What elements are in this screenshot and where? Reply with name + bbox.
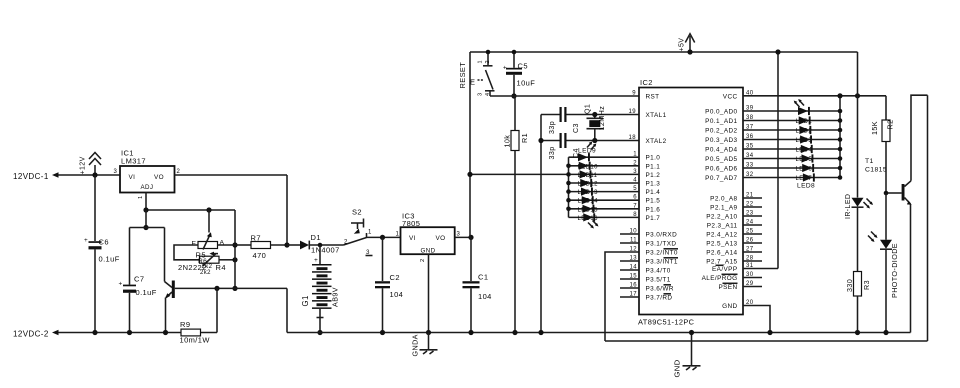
svg-text:+5V: +5V <box>679 38 686 52</box>
svg-text:18: 18 <box>629 135 637 141</box>
LED P0.0 <box>798 107 810 115</box>
svg-text:330: 330 <box>845 279 854 292</box>
crystal Q1 12MHz <box>584 104 607 143</box>
svg-text:RESET: RESET <box>458 62 467 89</box>
svg-text:P1.3: P1.3 <box>646 181 661 188</box>
LED LED10 <box>579 162 591 170</box>
wire base line <box>175 287 287 289</box>
junction emitter rail <box>163 330 168 335</box>
junction split <box>143 225 148 230</box>
wire P1.5 row <box>569 199 640 201</box>
svg-text:VO: VO <box>436 235 446 242</box>
svg-text:P1.0: P1.0 <box>646 155 661 162</box>
junction bus rows <box>566 164 571 212</box>
LED P0.2 <box>799 126 811 134</box>
wire P1.3 row <box>569 182 640 184</box>
svg-text:P1.6: P1.6 <box>646 206 661 213</box>
LED LED16 <box>583 213 595 221</box>
wire S2 to IC3 <box>367 236 401 238</box>
junction R7 D1 VO <box>284 242 289 247</box>
svg-text:R7: R7 <box>251 234 261 243</box>
potentiometer R5 <box>192 232 225 249</box>
junction G1 rail <box>317 330 322 335</box>
junction C6 rail <box>92 330 97 335</box>
svg-text:VCC: VCC <box>723 93 738 100</box>
LED LED11 <box>580 170 592 178</box>
junction caps rail <box>538 330 543 335</box>
wire P2.2 stub <box>743 215 762 217</box>
svg-text:12MHz: 12MHz <box>597 106 606 131</box>
junction base photodiode <box>884 191 889 196</box>
ground GND <box>673 330 701 378</box>
svg-text:P3.2/INT0: P3.2/INT0 <box>646 250 678 257</box>
wire P2.3 stub <box>743 224 762 226</box>
svg-text:19: 19 <box>629 109 637 115</box>
junction R4 riser <box>232 257 237 262</box>
wire top rail drop <box>857 52 859 96</box>
junction rail to IR-LED column <box>855 93 860 98</box>
wire P1.2 feed from +5V column <box>470 173 569 175</box>
photodiode <box>880 193 899 333</box>
svg-text:P0.0_AD0: P0.0_AD0 <box>705 108 737 115</box>
wire VCC corner to R2 <box>885 96 887 120</box>
svg-text:P1.2: P1.2 <box>646 172 661 179</box>
regulator IC1 LM317 <box>120 149 175 193</box>
ground GNDA <box>411 333 438 357</box>
svg-text:P2.2_A10: P2.2_A10 <box>706 213 737 220</box>
svg-text:GND: GND <box>421 248 436 255</box>
svg-text:P2.4_A12: P2.4_A12 <box>706 231 737 238</box>
wire C7 to rail <box>129 293 131 333</box>
svg-text:P3.4/T0: P3.4/T0 <box>646 268 671 275</box>
junction wiper tap <box>206 207 211 212</box>
capacitor C6 0.1uF <box>84 237 120 264</box>
battery G1 AB9V <box>301 245 340 333</box>
svg-text:GNDA: GNDA <box>411 334 420 356</box>
node 12VDC-2 <box>13 330 59 339</box>
svg-text:2: 2 <box>420 258 426 262</box>
svg-text:R1: R1 <box>520 133 529 143</box>
wire RST line <box>490 95 639 97</box>
wire rail2 <box>605 340 928 342</box>
pin 1 IC1 ADJ <box>138 193 146 211</box>
svg-text:C3: C3 <box>572 123 580 133</box>
wire P1.0 row <box>569 156 640 158</box>
svg-text:AB9V: AB9V <box>331 287 340 307</box>
junction C2 top <box>380 235 385 240</box>
svg-text:33p: 33p <box>548 146 556 159</box>
switch S2 <box>344 208 373 257</box>
svg-text:1: 1 <box>368 230 372 236</box>
overline PROG <box>722 273 738 275</box>
junction ADJ <box>143 207 148 212</box>
wire emitter down <box>910 204 912 333</box>
svg-text:G1: G1 <box>301 295 310 306</box>
wire P0.5 row <box>743 158 840 160</box>
pin number 9 <box>629 91 638 298</box>
MCU IC2 AT89C51 <box>638 78 743 327</box>
wire base corner down to rail <box>286 288 288 332</box>
wire right vertical to rail2 <box>927 95 929 341</box>
svg-text:R2: R2 <box>886 120 895 130</box>
svg-text:470: 470 <box>253 251 267 260</box>
svg-text:3: 3 <box>457 232 461 238</box>
capacitor C1 104 <box>463 237 492 332</box>
svg-text:3: 3 <box>478 93 484 96</box>
svg-text:7805: 7805 <box>402 219 420 228</box>
svg-text:S2: S2 <box>352 208 362 217</box>
svg-text:P0.1_AD1: P0.1_AD1 <box>705 118 737 125</box>
svg-text:3: 3 <box>114 169 118 175</box>
svg-text:+: + <box>84 237 88 244</box>
svg-text:P3.3/INT1: P3.3/INT1 <box>646 259 678 266</box>
svg-text:LED9: LED9 <box>578 148 596 155</box>
svg-text:P3.0/RXD: P3.0/RXD <box>646 232 678 239</box>
svg-text:P1.4: P1.4 <box>646 189 661 196</box>
wire R2 to T1 base <box>885 142 887 194</box>
junction feed <box>467 172 472 177</box>
LED LED12 <box>580 179 592 187</box>
wire P3.7 stub <box>620 296 639 298</box>
junction bus VCC <box>837 93 842 98</box>
svg-text:LED8: LED8 <box>797 183 815 190</box>
LED P0.4 <box>801 145 813 153</box>
regulator IC3 7805 <box>396 212 461 263</box>
wire P2.6 stub <box>743 251 762 253</box>
svg-text:15K: 15K <box>870 121 879 135</box>
junction R3 rail <box>855 330 860 335</box>
svg-text:2N2222: 2N2222 <box>178 263 207 272</box>
wire P3.1 stub <box>620 242 639 244</box>
LED LED14 <box>582 196 594 204</box>
LED P0.7 <box>803 173 815 181</box>
wire down to C7 <box>129 228 131 285</box>
LED16 emission arrows bottom <box>588 221 599 229</box>
svg-text:PHOTO-DIODE: PHOTO-DIODE <box>890 243 899 298</box>
wire caps ground column <box>540 115 542 333</box>
wire collector up <box>911 95 928 181</box>
capacitor C5 10uF <box>503 50 535 99</box>
junctions bus rows <box>838 109 843 180</box>
LED9 emission arrows top <box>587 142 596 150</box>
wire P0.2 row <box>743 129 840 131</box>
svg-text:+: + <box>314 257 318 264</box>
overline WR <box>664 284 672 286</box>
wire P3.6 stub <box>620 287 639 289</box>
junction base R9 riser <box>214 286 219 291</box>
svg-text:10uF: 10uF <box>517 79 536 88</box>
svg-text:XTAL1: XTAL1 <box>646 112 667 119</box>
svg-text:1: 1 <box>138 195 144 199</box>
label LED10 <box>578 164 599 222</box>
wire P1.4 row <box>569 191 640 193</box>
svg-text:P0.4_AD4: P0.4_AD4 <box>705 146 737 153</box>
wire VO corner down to R7/D1 junction <box>286 175 288 245</box>
svg-text:P2.5_A13: P2.5_A13 <box>706 240 737 247</box>
wire P2.1 stub <box>743 206 762 208</box>
svg-text:1: 1 <box>396 232 400 238</box>
wire P1.6 row <box>569 208 640 210</box>
wire P3.4 stub <box>620 269 639 271</box>
svg-text:P0.7_AD7: P0.7_AD7 <box>705 175 737 182</box>
resistor R1 10k <box>503 96 530 333</box>
svg-text:P3.5/T1: P3.5/T1 <box>646 277 671 284</box>
svg-text:10m/1W: 10m/1W <box>180 336 211 345</box>
wire top +5V rail <box>470 51 858 53</box>
wire PSEN stub <box>743 286 762 288</box>
LED LED13 <box>581 188 593 196</box>
overline EA <box>716 264 724 266</box>
svg-text:VI: VI <box>129 174 136 181</box>
wire P2.4 stub <box>743 233 762 235</box>
svg-text:C7: C7 <box>134 275 144 284</box>
svg-text:12VDC-2: 12VDC-2 <box>13 330 49 339</box>
resistor R9 10m/1W <box>180 320 218 345</box>
svg-text:2: 2 <box>485 60 491 63</box>
capacitor C3 33p <box>548 107 639 134</box>
wire P0.7 row <box>743 177 840 179</box>
wire IC1 VO to corner <box>175 174 288 176</box>
wire XTAL2 line <box>541 140 560 142</box>
svg-text:ALE/PROG: ALE/PROG <box>702 275 738 282</box>
svg-text:GND: GND <box>673 359 682 377</box>
svg-text:1: 1 <box>478 60 484 63</box>
wire P3.3 stub <box>620 260 639 262</box>
svg-text:P1.5: P1.5 <box>646 198 661 205</box>
svg-text:2: 2 <box>344 240 348 246</box>
svg-text:10k: 10k <box>503 135 512 148</box>
LED P0.6 <box>802 164 814 172</box>
svg-text:9: 9 <box>632 91 636 97</box>
svg-text:AT89C51-12PC: AT89C51-12PC <box>638 318 695 327</box>
svg-text:+12V: +12V <box>80 156 87 174</box>
IR-LED emission arrows <box>864 199 874 209</box>
svg-text:IC2: IC2 <box>640 78 653 87</box>
svg-text:R9: R9 <box>180 320 190 329</box>
junction IC3 GND rail <box>426 330 431 335</box>
wire split horizontal <box>130 227 165 229</box>
svg-text:P3.6/WR: P3.6/WR <box>646 286 674 293</box>
wire P2.7 stub <box>743 260 762 262</box>
wire riser ADJ corner to base line <box>234 210 236 288</box>
capacitor C2 104 <box>375 237 403 332</box>
wire P0.4 row <box>743 148 840 150</box>
wire P1.1 row <box>569 165 640 167</box>
wire R4 right to riser <box>219 259 235 261</box>
LED P0.1 <box>799 116 811 124</box>
wire 12VDC-2 rail <box>58 332 181 334</box>
node 12VDC-1 <box>13 172 59 181</box>
wire P2.5 stub <box>743 242 762 244</box>
wire P1.2 row <box>569 173 640 175</box>
wire P0.6 row <box>743 167 840 169</box>
LED LED9 <box>578 153 590 161</box>
svg-text:XTAL2: XTAL2 <box>646 138 667 145</box>
capacitor C7 0.1uF <box>119 275 157 298</box>
svg-text:2: 2 <box>177 169 181 175</box>
junction C1 rail <box>468 330 473 335</box>
wire 12VDC-1 to IC1 VI <box>58 174 120 176</box>
resistor R7 470 <box>235 234 287 261</box>
junction C7 rail <box>127 330 132 335</box>
wire R5 A to junction <box>218 244 236 246</box>
label LED1 <box>796 119 813 182</box>
wire XTAL1 line <box>541 114 560 116</box>
wire P3.2 to rail2 <box>605 252 639 341</box>
wire GND pin 20 <box>743 306 770 333</box>
wire ADJ net horizontal <box>146 209 235 211</box>
svg-text:T1: T1 <box>865 158 874 165</box>
svg-text:P0.2_AD2: P0.2_AD2 <box>705 127 737 134</box>
svg-text:VI: VI <box>409 235 416 242</box>
svg-text:104: 104 <box>478 292 492 301</box>
capacitor C4 33p <box>548 133 639 160</box>
svg-text:R3: R3 <box>862 280 871 290</box>
junction riser at base line <box>232 286 237 291</box>
wire down to Q1 collector <box>164 228 166 282</box>
wire wiper riser <box>208 210 210 233</box>
svg-text:104: 104 <box>390 290 404 299</box>
resistor R3 330 <box>845 272 871 333</box>
wire VCC line <box>743 95 886 97</box>
wire P3.0 stub <box>620 233 639 235</box>
wire +5V drop to LED anode column <box>777 52 779 269</box>
svg-text:P3.1/TXD: P3.1/TXD <box>646 241 677 248</box>
svg-text:P0.6_AD6: P0.6_AD6 <box>705 165 737 172</box>
svg-text:PSEN: PSEN <box>718 284 737 291</box>
wire +5V column <box>469 52 471 237</box>
junction pin20 rail <box>767 330 772 335</box>
svg-text:P3.7/RD: P3.7/RD <box>646 295 673 302</box>
svg-text:P2.3_A11: P2.3_A11 <box>707 222 738 229</box>
wire P3.5 stub <box>620 278 639 280</box>
svg-text:E: E <box>192 241 197 248</box>
svg-text:C6: C6 <box>99 238 109 247</box>
svg-text:VO: VO <box>154 174 164 181</box>
svg-text:EA/VPP: EA/VPP <box>712 266 738 273</box>
svg-text:ADJ: ADJ <box>141 184 154 191</box>
junction riser at R7 line <box>232 242 237 247</box>
svg-text:0.1uF: 0.1uF <box>136 288 157 297</box>
wire R9 riser to base line <box>216 288 218 332</box>
overline INT1 <box>664 257 679 259</box>
wire emitter down <box>165 298 167 333</box>
overline INT0 <box>664 248 679 250</box>
node +12V <box>80 153 102 178</box>
junction +5V column <box>468 235 473 240</box>
wire P2.0 stub <box>743 197 762 199</box>
svg-text:0.1uF: 0.1uF <box>99 255 120 264</box>
svg-text:+: + <box>503 65 507 72</box>
svg-text:P1.7: P1.7 <box>646 215 661 222</box>
LED P0.3 <box>800 135 812 143</box>
svg-text:IR-LED: IR-LED <box>845 194 852 219</box>
wire ADJ column to C7/collector split <box>145 210 147 228</box>
LED LED15 <box>583 205 595 213</box>
transistor T1 C1815 <box>865 158 912 205</box>
potentiometer R4 <box>200 252 220 266</box>
svg-text:P2.0_A8: P2.0_A8 <box>710 195 737 202</box>
wire IC3 GND stub <box>428 254 430 332</box>
svg-text:1N4007: 1N4007 <box>311 246 340 255</box>
pin RST label <box>646 93 678 301</box>
junction photodiode rail <box>883 330 888 335</box>
IR-LED <box>845 96 864 272</box>
svg-text:R4: R4 <box>216 263 226 272</box>
wire P0.1 row <box>743 120 840 122</box>
wire P0.0 row <box>743 110 840 112</box>
photodiode receive arrows <box>868 232 878 243</box>
LED P0.5 <box>802 154 814 162</box>
svg-text:P2.7_A15: P2.7_A15 <box>706 258 737 265</box>
svg-text:33p: 33p <box>548 121 556 134</box>
LED8 emission arrows top <box>794 99 804 107</box>
transistor Q 2N2222 <box>165 281 175 300</box>
svg-text:P0.3_AD3: P0.3_AD3 <box>705 137 737 144</box>
svg-text:C1815: C1815 <box>865 167 887 174</box>
overline RD <box>664 293 672 295</box>
overline PSEN <box>723 282 738 284</box>
svg-text:P0.5_AD5: P0.5_AD5 <box>705 156 737 163</box>
wire LED8 cathode bus <box>839 96 841 178</box>
svg-text:D1: D1 <box>311 233 321 242</box>
svg-text:+: + <box>119 281 123 288</box>
svg-text:E: E <box>470 78 475 87</box>
wire +12V column down <box>94 175 96 241</box>
svg-text:P1.1: P1.1 <box>646 163 661 170</box>
wire IC3 out to +5V column <box>455 236 471 238</box>
junction at rail <box>775 49 780 54</box>
node +5V <box>679 34 695 55</box>
wire C6 to 12VDC-2 rail <box>94 249 96 332</box>
svg-text:C1: C1 <box>478 273 488 282</box>
svg-text:Q1: Q1 <box>584 104 592 114</box>
svg-text:GND: GND <box>722 303 737 310</box>
switch S1 reset <box>470 50 495 96</box>
wire ALE/PROG stub <box>743 277 762 279</box>
resistor R2 15K <box>870 120 895 142</box>
wire R5 E loop to R4 <box>174 245 200 260</box>
wire P1.7 row <box>569 216 640 218</box>
wire main ground rail <box>287 332 911 334</box>
svg-text:P2.1_A9: P2.1_A9 <box>710 204 737 211</box>
junction C4 column <box>538 138 543 143</box>
diode D1 1N4007 <box>287 233 344 255</box>
junction R1 rail <box>512 330 517 335</box>
junction C2 rail <box>380 330 385 335</box>
wire LED9 anode bus <box>568 157 570 217</box>
svg-text:RST: RST <box>646 93 660 100</box>
wire EA/VPP to +5V column <box>743 268 778 270</box>
svg-text:C5: C5 <box>518 62 528 71</box>
svg-text:C2: C2 <box>390 273 400 282</box>
junction G1 top <box>318 243 323 248</box>
wire base link <box>886 192 902 194</box>
svg-text:LM317: LM317 <box>121 157 146 166</box>
svg-text:12VDC-1: 12VDC-1 <box>13 172 49 181</box>
svg-text:P2.6_A14: P2.6_A14 <box>706 249 737 256</box>
wire P0.3 row <box>743 139 840 141</box>
